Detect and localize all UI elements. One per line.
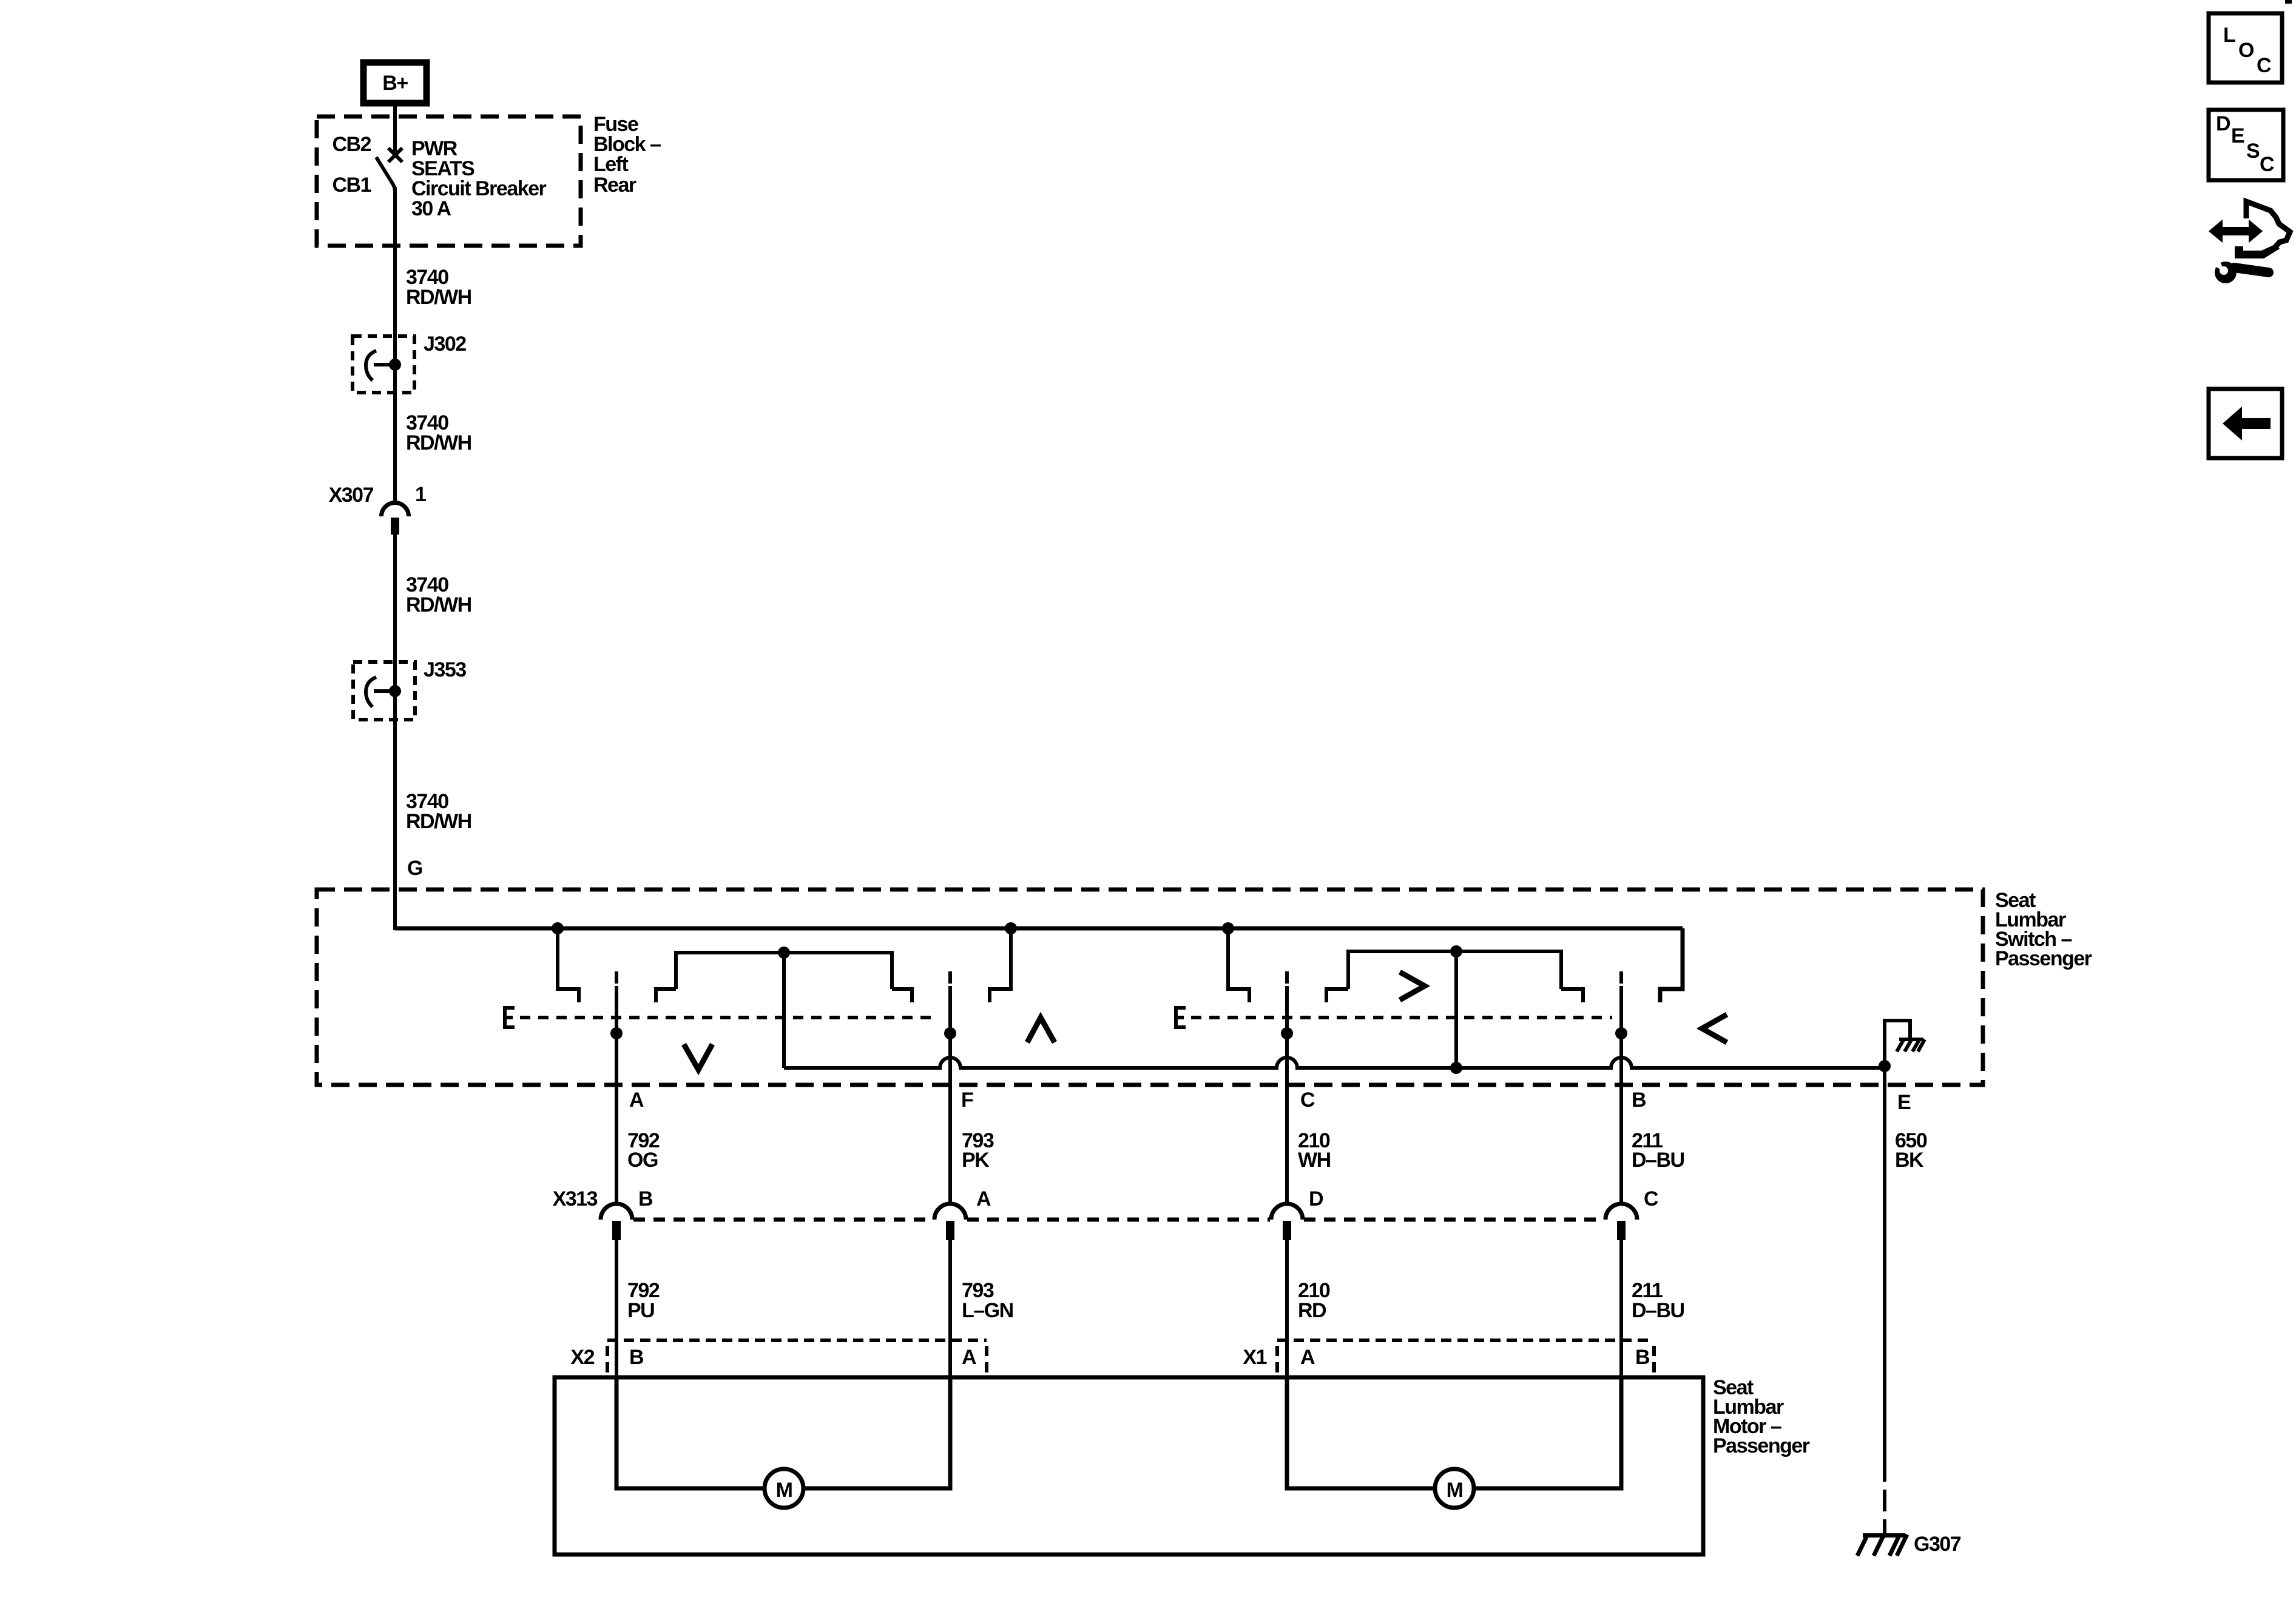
svg-text:X313: X313 xyxy=(553,1187,598,1210)
svg-text:B: B xyxy=(1635,1346,1650,1369)
wire 3740 RD/WH segment 3 xyxy=(393,535,397,930)
svg-text:RD/WH: RD/WH xyxy=(406,286,471,309)
svg-text:A: A xyxy=(629,1089,644,1112)
switch REV contact arm from bus end xyxy=(1660,928,1683,1002)
switch UP contact arm xyxy=(990,928,1011,1002)
pole C line xyxy=(1281,971,1293,1206)
svg-text:RD/WH: RD/WH xyxy=(406,593,471,616)
svg-text:B: B xyxy=(1632,1089,1646,1112)
svg-text:WH: WH xyxy=(1298,1149,1331,1172)
wire 792 OG label xyxy=(627,1129,660,1172)
svg-text:C: C xyxy=(2260,153,2274,176)
splice J302 xyxy=(353,333,466,393)
svg-text:D–BU: D–BU xyxy=(1632,1299,1684,1322)
connector X1 xyxy=(1243,1340,1654,1374)
bus junction node 1 xyxy=(552,922,564,934)
wire 3740 RD/WH segment 2 xyxy=(406,411,471,454)
pole A line xyxy=(610,971,623,1206)
svg-text:C: C xyxy=(1644,1187,1658,1210)
svg-text:D: D xyxy=(1309,1187,1323,1210)
hotlink icon component outline xyxy=(2246,201,2290,248)
svg-text:A: A xyxy=(1300,1346,1315,1369)
svg-text:A: A xyxy=(962,1346,976,1369)
mechanical link E bracket 1 xyxy=(505,1008,938,1027)
svg-text:Passenger: Passenger xyxy=(1713,1434,1810,1457)
svg-text:G: G xyxy=(407,857,422,880)
wire C below X313 xyxy=(1285,1240,1289,1488)
wire F below X313 xyxy=(948,1240,952,1488)
wire 210 WH label xyxy=(1298,1129,1331,1172)
switch V contact arm xyxy=(558,928,579,1002)
svg-text:M: M xyxy=(1447,1479,1463,1502)
DESC nav box xyxy=(2209,110,2283,180)
svg-text:L–GN: L–GN xyxy=(962,1299,1013,1322)
X313 terminal B xyxy=(601,1187,653,1240)
wire 793 L-GN label xyxy=(962,1279,1013,1322)
internal ground branch xyxy=(1879,1021,1925,1072)
svg-text:Passenger: Passenger xyxy=(1995,947,2092,970)
svg-text:CB2: CB2 xyxy=(332,133,371,156)
svg-text:C: C xyxy=(2257,54,2271,77)
X313 terminal C xyxy=(1606,1187,1658,1240)
connector X307 pin 1 xyxy=(329,483,426,535)
hotlink icon component outline lower bar xyxy=(2235,244,2280,258)
svg-text:PK: PK xyxy=(962,1149,990,1172)
wire 3740 RD/WH segment 4 xyxy=(406,790,471,833)
svg-text:B+: B+ xyxy=(382,72,408,95)
svg-text:Rear: Rear xyxy=(593,174,636,197)
svg-text:F: F xyxy=(961,1089,973,1112)
hotlink icon double arrow xyxy=(2210,222,2261,240)
wire 3740 RD/WH segment 1 xyxy=(393,187,397,502)
fuse block dashed box xyxy=(317,116,581,246)
bus junction node 3 xyxy=(1222,922,1234,934)
wire 792 PU label xyxy=(627,1279,660,1322)
inline connector X313 xyxy=(553,1187,1604,1220)
svg-text:OG: OG xyxy=(627,1149,658,1172)
X313 terminal D xyxy=(1271,1187,1323,1240)
svg-text:X307: X307 xyxy=(329,484,374,507)
svg-text:S: S xyxy=(2246,140,2260,163)
wire 211 D-BU label xyxy=(1632,1129,1684,1172)
svg-text:X2: X2 xyxy=(570,1346,594,1369)
svg-text:RD: RD xyxy=(1298,1299,1326,1322)
seat lumbar motor label xyxy=(1713,1376,1810,1457)
seat lumbar switch label xyxy=(1995,889,2092,970)
pole B line xyxy=(1615,971,1627,1206)
LOC nav box xyxy=(2209,13,2282,83)
fuse block label xyxy=(593,113,661,197)
jumper U2 between poles C and B xyxy=(1326,945,1583,1074)
switch down symbol V xyxy=(684,1044,712,1070)
svg-text:1: 1 xyxy=(415,483,426,506)
svg-text:G307: G307 xyxy=(1914,1533,1961,1556)
page corner tick xyxy=(2285,0,2292,4)
svg-text:A: A xyxy=(976,1187,991,1210)
svg-text:C: C xyxy=(1300,1089,1315,1112)
switch rearward symbol xyxy=(1702,1014,1727,1042)
ground G307 xyxy=(1857,1533,1961,1556)
svg-text:J302: J302 xyxy=(424,333,466,356)
switch up symbol xyxy=(1027,1018,1055,1042)
svg-text:BK: BK xyxy=(1895,1149,1924,1172)
hotlink icon wrench xyxy=(2209,254,2269,283)
svg-text:J353: J353 xyxy=(424,658,466,681)
mechanical link E bracket 2 xyxy=(1176,1008,1612,1027)
battery feed B+ symbol xyxy=(363,62,427,103)
switch FWD contact arm xyxy=(1228,928,1249,1002)
svg-text:30 A: 30 A xyxy=(411,197,451,220)
seat lumbar motor box xyxy=(555,1377,1703,1555)
pole F line xyxy=(944,971,956,1206)
jumper U1 between poles A and F xyxy=(656,947,912,1068)
bus junction node 2 xyxy=(1005,922,1017,934)
svg-text:RD/WH: RD/WH xyxy=(406,431,471,454)
svg-text:CB1: CB1 xyxy=(332,174,371,197)
svg-text:RD/WH: RD/WH xyxy=(406,810,471,833)
svg-text:B: B xyxy=(638,1187,653,1210)
wire A below X313 xyxy=(615,1240,618,1488)
svg-text:B: B xyxy=(629,1346,644,1369)
svg-text:L: L xyxy=(2223,24,2235,47)
feed bus inside switch xyxy=(395,927,1683,931)
common return line to pin E with hops xyxy=(784,1058,1885,1068)
ground wire dashed tail xyxy=(1883,1460,1886,1536)
pin E wire through box edge xyxy=(1883,1068,1886,1460)
seat lumbar switch dashed box xyxy=(317,890,1983,1085)
svg-text:O: O xyxy=(2238,39,2254,62)
connector X2 xyxy=(570,1340,987,1374)
switch forward symbol xyxy=(1400,972,1425,1000)
circuit breaker CB1/CB2 PWR SEATS 30 A xyxy=(332,133,546,220)
wire 211 D-BU label 2 xyxy=(1632,1279,1684,1322)
svg-text:PU: PU xyxy=(627,1299,654,1322)
wire B below X313 xyxy=(1619,1240,1623,1488)
wire 210 RD label xyxy=(1298,1279,1330,1322)
svg-text:M: M xyxy=(776,1479,792,1502)
lumbar motor M2 xyxy=(1287,1377,1621,1508)
svg-text:Left: Left xyxy=(593,153,629,176)
svg-text:E: E xyxy=(1897,1091,1911,1114)
splice J353 xyxy=(353,658,466,720)
svg-text:X1: X1 xyxy=(1243,1346,1266,1369)
back arrow nav box xyxy=(2209,389,2282,458)
svg-text:D–BU: D–BU xyxy=(1632,1149,1684,1172)
svg-text:E: E xyxy=(2231,124,2244,147)
lumbar motor M1 xyxy=(616,1377,950,1508)
wire from B+ into fuse block xyxy=(393,106,397,152)
svg-text:D: D xyxy=(2216,112,2230,135)
wire 650 BK label xyxy=(1895,1129,1927,1172)
X313 terminal A xyxy=(934,1187,991,1240)
wire 793 PK label xyxy=(962,1129,994,1172)
